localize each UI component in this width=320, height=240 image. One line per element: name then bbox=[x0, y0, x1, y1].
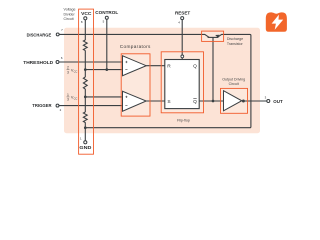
svg-text:RESET: RESET bbox=[175, 10, 190, 15]
flip-flop U1 body bbox=[165, 60, 199, 109]
output buffer U2 bbox=[224, 91, 242, 111]
pin OUT terminal bbox=[267, 100, 270, 103]
wire: comparator 2 output to flip-flop S input bbox=[146, 100, 164, 102]
highlight box interior tints bbox=[79, 9, 248, 154]
IC body highlight panel bbox=[64, 28, 260, 133]
svg-text:Divider: Divider bbox=[64, 13, 76, 17]
svg-text:Flip-flop: Flip-flop bbox=[177, 119, 190, 123]
wire: transistor emitter to ground rail (top-right, right edge, bottom rail) bbox=[85, 34, 251, 127]
svg-text:S: S bbox=[167, 99, 170, 105]
wire: transistor base down to flip-flop Q-bar output net bbox=[212, 37, 214, 101]
svg-text:Circuit: Circuit bbox=[229, 82, 239, 86]
wire: 2/3 Vcc node to comparator 1 minus input bbox=[85, 69, 124, 71]
comparators highlight box bbox=[121, 54, 150, 116]
wire: divider segment R2 to R3 bbox=[84, 89, 86, 112]
svg-text:CONTROL: CONTROL bbox=[95, 10, 118, 15]
pin VCC terminal bbox=[84, 17, 87, 20]
svg-text:CC: CC bbox=[74, 69, 78, 73]
wire: TRIGGER pin to comparator 2 minus input bbox=[59, 105, 124, 107]
svg-text:3: 3 bbox=[67, 98, 69, 102]
node: buffer output junction bbox=[242, 100, 245, 103]
flip-flop reset inversion bubble bbox=[181, 55, 184, 58]
logo: Circuit Bread toast bbox=[266, 12, 287, 31]
wire: RESET stem down to flip-flop bubble bbox=[181, 20, 183, 60]
transistor Q1 emitter arrow bbox=[215, 35, 219, 38]
pin RESET terminal bbox=[181, 17, 184, 20]
transistor Q1 highlight box bbox=[202, 31, 224, 41]
node: control joins 2/3 Vcc net bbox=[105, 68, 108, 71]
wire: flip-flop Q-bar to output buffer bbox=[198, 100, 223, 102]
svg-text:Q: Q bbox=[193, 64, 197, 70]
svg-text:Voltage: Voltage bbox=[64, 8, 76, 12]
svg-text:R: R bbox=[167, 64, 171, 70]
svg-text:OUT: OUT bbox=[273, 99, 283, 104]
label 2/3 Vcc bbox=[67, 66, 78, 75]
svg-text:5: 5 bbox=[103, 20, 105, 24]
op-amp comparator 1 bbox=[123, 56, 147, 76]
svg-text:Output Driving: Output Driving bbox=[222, 77, 245, 81]
svg-text:7: 7 bbox=[61, 28, 63, 32]
op-amp comparator 2 bbox=[123, 91, 147, 111]
logo lightning bolt bbox=[272, 15, 284, 30]
wire: divider segment R1 to R2 bbox=[84, 51, 86, 78]
pin TRIGGER terminal bbox=[56, 104, 59, 107]
wire: divider bottom to GND terminal bbox=[84, 122, 86, 141]
wire: DISCHARGE pin to transistor collector (top rail left) bbox=[59, 34, 209, 37]
svg-text:Discharge: Discharge bbox=[227, 37, 243, 41]
flip-flop highlight box bbox=[161, 52, 203, 113]
svg-text:TRIGGER: TRIGGER bbox=[32, 103, 52, 108]
svg-text:2: 2 bbox=[67, 66, 69, 70]
svg-text:THRESHOLD: THRESHOLD bbox=[23, 60, 53, 65]
svg-text:3: 3 bbox=[265, 96, 267, 100]
voltage divider highlight box bbox=[79, 9, 94, 154]
wire: output buffer to OUT pin bbox=[243, 100, 266, 102]
wire: 1/3 Vcc node to comparator 2 plus input bbox=[85, 96, 124, 98]
transistor Q1 base bar bbox=[208, 36, 219, 38]
svg-text:DISCHARGE: DISCHARGE bbox=[27, 32, 52, 37]
pin GND terminal bbox=[84, 141, 87, 144]
svg-text:4: 4 bbox=[178, 21, 180, 25]
svg-text:Comparators: Comparators bbox=[120, 44, 151, 49]
wire: THRESHOLD pin to comparator 1 plus input bbox=[59, 61, 124, 63]
pin DISCHARGE terminal bbox=[56, 33, 59, 36]
svg-text:Circuit: Circuit bbox=[64, 17, 74, 21]
node: 1/3 Vcc junction on divider bbox=[84, 96, 87, 99]
svg-text:CC: CC bbox=[74, 97, 78, 101]
node: divider bottom / ground rail junction bbox=[84, 126, 87, 129]
output driving circuit highlight box bbox=[221, 88, 248, 113]
wire: CONTROL stem down to 2/3 Vcc node bbox=[106, 19, 108, 70]
resistor R1 bbox=[83, 40, 87, 50]
wire: VCC stem into divider bbox=[84, 20, 86, 40]
resistor R2 bbox=[83, 77, 87, 89]
pin CONTROL terminal bbox=[105, 16, 108, 19]
label 1/3 Vcc bbox=[67, 93, 78, 102]
svg-text:3: 3 bbox=[67, 70, 69, 74]
svg-text:1: 1 bbox=[67, 93, 69, 97]
wire: comparator 1 output to flip-flop R input bbox=[146, 65, 164, 67]
svg-text:GND: GND bbox=[79, 145, 91, 151]
svg-text:Q: Q bbox=[193, 99, 197, 105]
svg-text:2: 2 bbox=[60, 108, 62, 112]
pin THRESHOLD terminal bbox=[56, 61, 59, 64]
node: 2/3 Vcc junction on divider bbox=[84, 68, 87, 71]
node: transistor base joins Q-bar net bbox=[212, 100, 215, 103]
svg-text:Transistor: Transistor bbox=[227, 42, 244, 46]
resistor R3 bbox=[83, 112, 87, 123]
svg-text:6: 6 bbox=[61, 56, 63, 60]
svg-text:VCC: VCC bbox=[81, 11, 92, 16]
